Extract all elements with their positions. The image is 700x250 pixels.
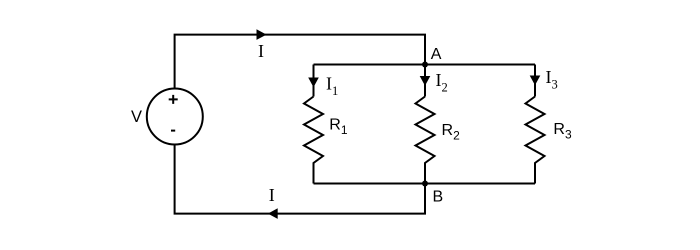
arrow for current I2 (pointing down): [420, 76, 431, 86]
resistor R3: [526, 97, 545, 184]
wire: branch 2 top lead (node A down to R2): [424, 65, 426, 97]
node A junction dot: [422, 62, 428, 68]
arrow for current I1 (pointing down): [308, 78, 319, 88]
wire: top loop from source top, right along top, down to node A: [175, 35, 425, 89]
wire: node B down and return along bottom to source: [175, 145, 425, 214]
svg-text:I: I: [269, 185, 275, 205]
svg-text:B: B: [433, 188, 444, 205]
arrow for current I on top wire (pointing right): [257, 29, 267, 40]
resistor R2: [416, 97, 435, 184]
minus terminal mark: [171, 130, 175, 132]
wire: top rail of parallel network: [314, 64, 536, 66]
plus terminal mark: [169, 95, 178, 104]
svg-text:I: I: [258, 41, 264, 61]
node B junction dot: [422, 181, 428, 187]
voltage source V (circle): [147, 89, 203, 145]
wire: bottom rail of parallel network: [314, 183, 536, 185]
arrow for current I3 (pointing down): [530, 76, 541, 86]
arrow for current I on bottom wire (pointing left): [268, 208, 278, 219]
svg-text:V: V: [131, 108, 142, 126]
wire: branch 3 top lead: [534, 65, 536, 97]
wire: branch 1 top lead: [313, 65, 315, 97]
svg-text:A: A: [431, 46, 442, 63]
resistor R1: [304, 97, 323, 184]
